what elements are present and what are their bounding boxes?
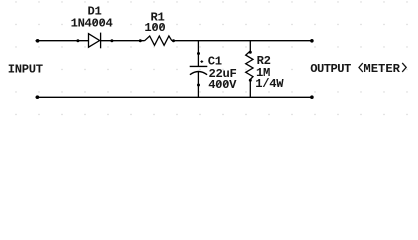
node R2 top lead dot (249, 51, 252, 54)
node R2 bottom lead dot (249, 79, 252, 82)
wire top rail left segment (36, 40, 89, 42)
node output bottom terminal dot (310, 95, 314, 99)
node input bottom terminal dot (36, 95, 40, 99)
wire top rail right segment (172, 40, 313, 42)
svg-text:100: 100 (144, 21, 165, 35)
svg-text:1/4W: 1/4W (255, 77, 284, 91)
svg-text:INPUT: INPUT (8, 62, 43, 76)
wire R2 lower stub (249, 79, 251, 97)
node diode anode junction dot (76, 39, 79, 42)
label left angle bracket of (METER) (359, 63, 363, 72)
svg-text:400V: 400V (208, 78, 237, 92)
node input top terminal dot (36, 39, 40, 43)
resistor R1 (145, 36, 172, 45)
node R1 left junction dot (139, 39, 142, 42)
slashed zero marks (DOS font style) in 1N4004 (94, 20, 104, 25)
node output top terminal dot (310, 39, 314, 43)
svg-text:1N4004: 1N4004 (71, 17, 113, 31)
svg-text:OUTPUT: OUTPUT (310, 62, 351, 76)
node C1 bottom lead dot (197, 84, 200, 87)
diode D1 (89, 33, 101, 49)
wire top rail diode-to-resistor segment (101, 40, 145, 42)
wire R2 upper stub (249, 41, 251, 53)
resistor R2 (246, 51, 253, 79)
slashed zero marks in 100 (153, 24, 163, 29)
node diode cathode junction dot (110, 39, 113, 42)
svg-text:METER: METER (363, 62, 400, 76)
node R1 right junction dot (172, 39, 175, 42)
grid dots (15, 1, 407, 115)
slashed zero marks in 400V (217, 82, 227, 87)
polarity plus sign C1 (200, 60, 203, 63)
wire bottom rail (36, 96, 314, 98)
capacitor C1 (190, 66, 208, 74)
node C1 top lead dot (197, 52, 200, 55)
label right angle bracket of (METER) (402, 63, 406, 72)
wire C1 lower stub (197, 71, 199, 97)
wire C1 upper stub (197, 41, 199, 66)
